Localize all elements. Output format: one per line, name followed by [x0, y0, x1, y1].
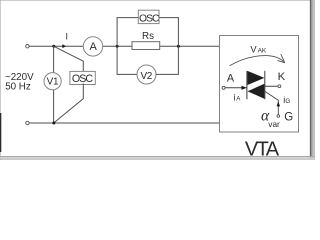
oscilloscope OSC (lower) — [70, 71, 95, 85]
wire gate lead — [265, 91, 280, 114]
svg-text:AK: AK — [258, 48, 267, 55]
svg-text:A: A — [227, 72, 235, 84]
node junction bottom — [52, 122, 55, 125]
terminal G (gate) — [277, 115, 280, 118]
wire OSC tap diagonal lower — [54, 84, 83, 123]
svg-text:V: V — [250, 44, 257, 54]
terminal K (cathode) — [278, 85, 281, 88]
device box VTA — [220, 36, 299, 133]
svg-text:OSC: OSC — [72, 73, 93, 85]
oscilloscope OSC (upper) — [138, 10, 160, 24]
svg-text:OSC: OSC — [139, 13, 160, 24]
svg-text:K: K — [278, 71, 286, 83]
svg-text:V2: V2 — [140, 71, 152, 82]
svg-text:i: i — [234, 92, 236, 102]
node junction top (V1/OSC tap) — [52, 45, 55, 48]
voltmeter V2 — [137, 65, 156, 84]
ammeter A — [83, 37, 102, 56]
voltmeter V1 — [44, 73, 61, 90]
svg-text:A: A — [90, 41, 98, 53]
svg-text:50 Hz: 50 Hz — [5, 81, 31, 92]
label alpha var — [261, 107, 280, 129]
source label ~220V 50 Hz — [5, 72, 34, 93]
svg-text:G: G — [284, 112, 293, 124]
svg-text:G: G — [285, 98, 290, 105]
node junction Rs-left — [116, 45, 119, 48]
wire OSC1 right lead — [159, 18, 178, 47]
label VAK with arc — [230, 44, 285, 66]
svg-text:V1: V1 — [47, 76, 59, 87]
wire bottom rail — [29, 122, 220, 124]
wire OSC1 left lead — [117, 18, 138, 47]
resistor Rs — [132, 31, 160, 50]
wire V1 branch vertical — [53, 46, 55, 123]
label IA — [234, 92, 242, 102]
wire cathode lead — [265, 85, 278, 87]
current arrow I — [62, 31, 68, 48]
svg-text:Rs: Rs — [142, 31, 154, 42]
wire V2 right lead — [156, 46, 178, 74]
svg-text:var: var — [268, 119, 280, 129]
triac VTA symbol — [247, 71, 265, 99]
wire anode lead with IA arrow — [225, 86, 246, 90]
wire top rail — [29, 45, 220, 47]
terminal bottom-left — [26, 121, 29, 124]
label IG — [283, 95, 290, 105]
wire V2 left lead — [117, 46, 137, 74]
wire OSC tap diagonal upper — [54, 47, 83, 72]
terminal A (anode) — [222, 86, 225, 89]
terminal top-left — [26, 45, 29, 48]
node junction Rs-right — [177, 45, 180, 48]
svg-text:I: I — [66, 31, 69, 41]
